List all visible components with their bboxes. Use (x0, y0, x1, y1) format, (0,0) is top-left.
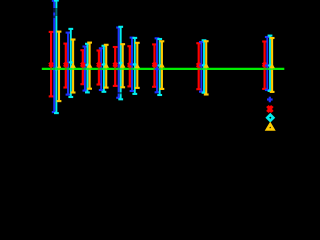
C4 yellow errorbar (105, 45, 107, 88)
C1 red errorbar (50, 32, 52, 97)
legend cyan diamond (267, 115, 273, 121)
C4 blue errorbar (100, 48, 102, 90)
C8 yellow triangle marker (203, 63, 209, 68)
C2 red errorbar (65, 44, 67, 88)
C9 yellow triangle marker (269, 63, 275, 68)
C2 yellow triangle marker (70, 63, 76, 68)
C9 cyan errorbar (269, 36, 271, 91)
C5 red errorbar (114, 47, 116, 86)
C1 yellow triangle marker (57, 64, 61, 68)
C6 cyan diamond marker (132, 62, 137, 67)
C5 blue errorbar (118, 28, 120, 98)
C3 blue plus marker (83, 68, 88, 70)
C1 red cross marker (49, 62, 52, 66)
C1 yellow errorbar (58, 32, 60, 102)
C4 blue plus marker (99, 68, 104, 70)
C5 cyan errorbar (120, 27, 122, 100)
C5 yellow errorbar (122, 44, 124, 87)
C9 red cross marker (263, 63, 266, 67)
C9 blue plus marker (265, 65, 270, 67)
C6 cyan errorbar (134, 38, 136, 94)
C5 cyan diamond marker (118, 61, 123, 66)
C9 cyan diamond marker (268, 63, 273, 68)
C3 red errorbar (82, 50, 84, 84)
C9 blue errorbar (266, 37, 268, 90)
C5 cyan bar dash gap (120, 92, 122, 94)
C4 cyan errorbar (103, 46, 105, 92)
bar tints crossing baseline (50, 68, 52, 70)
C8 cyan errorbar (203, 40, 205, 92)
C2 blue plus marker (66, 68, 71, 70)
C5 blue plus marker (116, 68, 121, 70)
C9 yellow errorbar (271, 38, 273, 92)
C6 yellow errorbar (136, 43, 138, 88)
C4 cyan diamond marker (102, 62, 107, 67)
green baseline (42, 68, 284, 70)
C4 red cross marker (97, 63, 100, 67)
C4 yellow triangle marker (103, 63, 109, 68)
C1 blue errorbar (53, 1, 55, 112)
C8 cyan diamond marker (202, 63, 207, 68)
C1 cyan errorbar (55, 1, 57, 114)
C2 red cross marker (64, 63, 67, 67)
C3 red cross marker (81, 63, 84, 67)
C6 blue errorbar (131, 38, 133, 91)
C7 yellow errorbar (161, 41, 163, 89)
C7 red cross marker (153, 63, 156, 67)
C1 cyan bar dash gaps (55, 8, 57, 16)
C7 cyan errorbar (159, 39, 161, 95)
C8 red errorbar (198, 43, 200, 89)
C3 cyan diamond marker (85, 63, 90, 68)
C3 yellow triangle marker (87, 63, 93, 68)
legend blue plus (267, 98, 273, 100)
C1 cyan diamond marker (54, 67, 59, 72)
C7 blue plus marker (155, 68, 160, 70)
C9 red errorbar (264, 42, 266, 89)
C8 red cross marker (197, 63, 200, 67)
C5 red cross marker (114, 63, 117, 67)
C2 cyan diamond marker (68, 60, 73, 65)
C7 cyan diamond marker (157, 63, 162, 68)
C6 blue plus marker (130, 63, 135, 65)
C5 yellow triangle marker (120, 63, 126, 68)
C3 blue errorbar (84, 47, 86, 91)
C8 yellow errorbar (205, 41, 207, 94)
C8 blue plus marker (199, 64, 204, 66)
C1 blue bar dash gaps (53, 8, 55, 13)
C4 red errorbar (98, 51, 100, 85)
C7 red errorbar (153, 44, 155, 86)
C2 cyan errorbar (70, 29, 72, 97)
C8 blue errorbar (200, 42, 202, 92)
C3 cyan errorbar (86, 44, 88, 93)
C6 red cross marker (128, 63, 131, 67)
C2 blue errorbar (67, 33, 69, 95)
C1 blue plus marker (52, 68, 57, 70)
C2 yellow errorbar (72, 40, 74, 93)
C7 yellow triangle marker (159, 62, 165, 67)
C7 blue errorbar (156, 38, 158, 92)
C5 blue bar dash gap (118, 92, 120, 94)
C3 yellow errorbar (89, 43, 91, 89)
legend red cross (268, 106, 273, 112)
C6 red errorbar (129, 46, 131, 86)
C6 yellow triangle marker (135, 63, 141, 68)
legend yellow triangle (267, 124, 273, 129)
